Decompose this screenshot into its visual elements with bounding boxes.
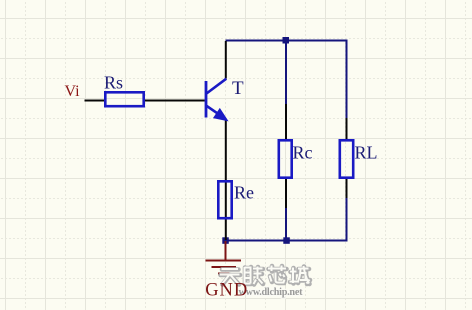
- svg-text:www.dlchip.net: www.dlchip.net: [239, 287, 304, 298]
- svg-text:Re: Re: [234, 183, 254, 203]
- svg-text:Rs: Rs: [104, 73, 123, 93]
- svg-text:RL: RL: [355, 143, 378, 163]
- svg-text:GND: GND: [205, 281, 247, 301]
- svg-text:T: T: [232, 78, 244, 99]
- svg-text:Rc: Rc: [293, 143, 313, 163]
- svg-text:Vi: Vi: [65, 83, 81, 100]
